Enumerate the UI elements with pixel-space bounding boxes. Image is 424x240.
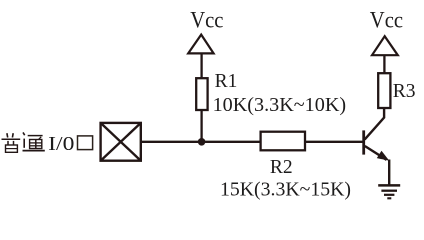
- wire: R1 to junction: [200, 110, 202, 142]
- svg-text:R2: R2: [270, 157, 293, 178]
- svg-text:15K(3.3K~15K): 15K(3.3K~15K): [220, 179, 351, 201]
- junction dot node A: [198, 138, 206, 146]
- svg-text:R3: R3: [393, 81, 416, 102]
- svg-text:10K(3.3K~10K): 10K(3.3K~10K): [213, 94, 347, 116]
- power Vcc right symbol (triangle): [372, 36, 398, 55]
- wire: pin box to R2 (through junction): [141, 141, 261, 143]
- svg-text:Vcc: Vcc: [190, 8, 223, 33]
- transistor Q1 (NPN): [364, 108, 390, 161]
- glyph 通: [23, 132, 45, 150]
- wire: Q1 emitter to ground: [388, 160, 390, 186]
- svg-text:I/0: I/0: [48, 133, 74, 155]
- glyph 口: [78, 136, 93, 150]
- resistor R2: [261, 132, 305, 151]
- power Vcc left symbol (triangle): [188, 35, 213, 54]
- svg-text:R1: R1: [215, 71, 238, 92]
- wire: Vcc right to R3: [383, 55, 385, 73]
- I/O pin symbol (crossed box): [101, 123, 141, 161]
- wire: Vcc left to R1: [200, 53, 202, 78]
- resistor R1: [196, 78, 207, 110]
- resistor R3: [378, 73, 390, 108]
- ground: [378, 185, 400, 198]
- wire: R2 to Q1 base: [305, 141, 364, 143]
- svg-text:Vcc: Vcc: [370, 8, 403, 33]
- net label "普通I/0口" : glyph 普: [2, 133, 21, 152]
